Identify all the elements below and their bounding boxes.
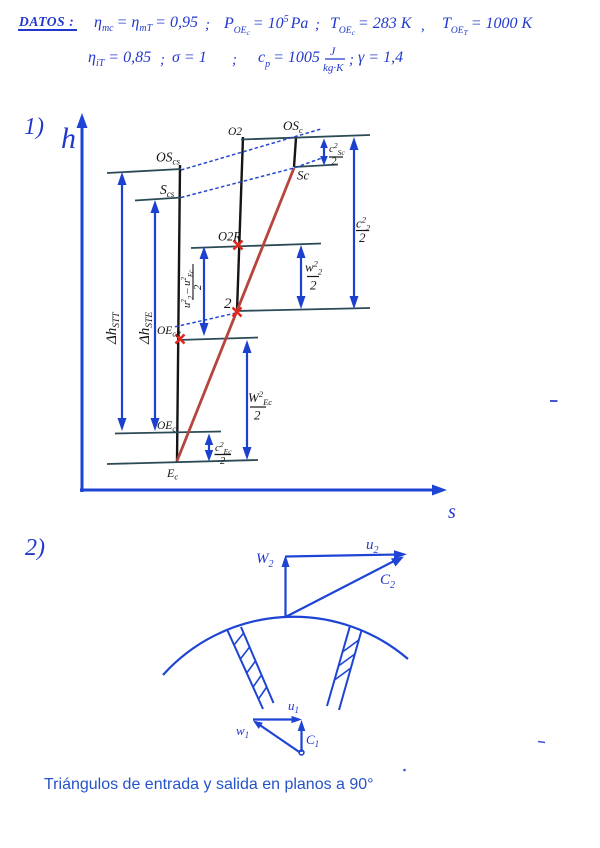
svg-text:2: 2 xyxy=(220,456,226,467)
level line Ec (bottom) xyxy=(107,460,258,464)
datos line 1: eta_mc = eta_mT = 0,95 xyxy=(94,14,210,34)
svg-text:;: ; xyxy=(315,17,320,33)
label c_Ec^2/2 fraction xyxy=(215,440,233,467)
svg-text:OEc: OEc xyxy=(157,420,176,434)
svg-text:ΔhSTT: ΔhSTT xyxy=(104,312,122,345)
svg-text:C1: C1 xyxy=(306,732,319,749)
svg-text:γ = 1,4: γ = 1,4 xyxy=(358,49,403,66)
svg-text:POEc= 105Pa: POEc= 105Pa xyxy=(223,14,308,37)
svg-text:kg·K: kg·K xyxy=(323,62,344,74)
svg-text:OSc: OSc xyxy=(283,118,303,135)
svg-text:w22: w22 xyxy=(305,259,323,277)
right blade edge 2 xyxy=(339,631,362,711)
svg-text:2: 2 xyxy=(310,278,317,293)
svg-text:h: h xyxy=(61,122,76,155)
svg-text:,: , xyxy=(421,18,425,34)
label W_Ec^2/2 fraction xyxy=(248,389,272,423)
svg-text:DATOS :: DATOS : xyxy=(18,14,74,29)
stray dash right of hs diagram xyxy=(550,400,558,402)
datos line 2: c_p = 1005 J/kgK xyxy=(258,44,403,74)
label c_Sc^2/2 fraction xyxy=(329,141,345,168)
red real-process line Ec-Sc xyxy=(177,168,294,461)
left blade hatching xyxy=(234,633,267,699)
svg-text:OScs: OScs xyxy=(156,150,180,167)
svg-text:O2R: O2R xyxy=(218,230,241,244)
stray dash far right xyxy=(538,742,545,743)
svg-text:W2: W2 xyxy=(256,551,274,570)
arrow (u2^2-uEc^2)/2 xyxy=(200,247,209,337)
datos line 1: T_OEr = 1000 K xyxy=(442,15,534,37)
arrow dh_sTE xyxy=(151,200,160,431)
svg-text:TOET= 1000 K: TOET= 1000 K xyxy=(442,15,534,37)
svg-text:O2: O2 xyxy=(228,126,242,138)
inlet triangle: w1 arrow xyxy=(259,725,300,753)
level line OEc xyxy=(115,432,221,434)
svg-text:2): 2) xyxy=(25,535,45,561)
svg-text:1): 1) xyxy=(24,114,44,140)
level line O2/OSc (top) xyxy=(241,135,370,140)
datos line 2: eta_iT = 0,85 ; sigma = 1 xyxy=(88,49,237,69)
level line OScs xyxy=(107,169,181,173)
svg-text:2: 2 xyxy=(193,284,204,290)
rotor rim arc xyxy=(163,617,408,675)
svg-text:Sc: Sc xyxy=(297,168,310,183)
inlet triangle: u1 arrow xyxy=(253,718,294,720)
svg-text:2: 2 xyxy=(332,157,337,168)
compressor process line Ec-OScs (black) xyxy=(177,165,180,462)
svg-text:W2Ec: W2Ec xyxy=(248,389,272,407)
svg-text:2: 2 xyxy=(224,296,232,312)
rotated label (u2^2-uEc^2)/2 xyxy=(180,264,204,308)
svg-text:;: ; xyxy=(205,17,210,33)
arrow c_Sc^2/2 xyxy=(320,139,328,166)
svg-text:ηiT= 0,85: ηiT= 0,85 xyxy=(88,49,151,69)
svg-text:Scs: Scs xyxy=(160,182,175,199)
inlet triangle: C1 arrow up xyxy=(300,727,302,752)
right blade edge 1 xyxy=(327,626,350,706)
arrow dh_sTT xyxy=(118,172,127,431)
exit triangle: C2 hypotenuse arrow xyxy=(286,560,397,617)
svg-text:;: ; xyxy=(160,52,165,68)
exit triangle: u2 horizontal arrow xyxy=(286,555,399,557)
h axis (vertical) xyxy=(81,122,84,492)
dashed line Scs to Sc xyxy=(181,158,322,198)
svg-text:ΔhSTE: ΔhSTE xyxy=(137,312,155,345)
level line Sc xyxy=(294,165,338,168)
datos line 1: T_OEc = 283 K xyxy=(330,15,425,37)
svg-text:J: J xyxy=(330,44,336,58)
left blade edge 2 xyxy=(241,627,274,703)
arrow W_Ec^2/2 xyxy=(243,340,252,460)
label DATOS heading xyxy=(18,14,77,30)
level line Scs xyxy=(135,198,181,201)
dashed line OScs to top-right xyxy=(181,129,321,170)
line OSc-Sc (black) xyxy=(294,138,296,167)
svg-text:2: 2 xyxy=(254,408,261,423)
red X at 2 xyxy=(233,308,242,317)
W2 arrowhead up xyxy=(282,555,290,567)
red X at O2R xyxy=(234,241,243,250)
svg-text:σ = 1: σ = 1 xyxy=(172,49,207,66)
turbine process line O2-2 (black) xyxy=(237,137,243,311)
svg-text:u1: u1 xyxy=(288,698,299,715)
label c_2^2/2 fraction xyxy=(356,215,371,246)
stray dot right of triangle xyxy=(403,769,406,772)
svg-text:2: 2 xyxy=(359,230,366,245)
arrow c_Ec^2/2 xyxy=(205,434,213,462)
svg-text:ηmc= ηmT= 0,95: ηmc= ηmT= 0,95 xyxy=(94,14,198,34)
svg-text:Ec: Ec xyxy=(166,466,178,482)
level line O2R xyxy=(191,244,321,249)
svg-text:;: ; xyxy=(349,52,354,68)
svg-text:TOEc= 283 K: TOEc= 283 K xyxy=(330,15,413,37)
svg-text:cp= 1005: cp= 1005 xyxy=(258,49,320,70)
level line 2 xyxy=(236,308,370,311)
dashed line 2 to OEcR xyxy=(174,313,236,327)
left blade edge 1 xyxy=(228,631,264,710)
arrow w_2^2/2 xyxy=(297,245,306,309)
svg-text:;: ; xyxy=(232,52,237,68)
right blade hatching xyxy=(335,640,359,680)
datos line 1: P_OEc = 10^5 Pa xyxy=(223,14,320,37)
arrow c_2^2/2 xyxy=(350,137,359,309)
s axis (horizontal) xyxy=(80,489,438,492)
svg-text:c2Ec: c2Ec xyxy=(215,440,232,456)
svg-text:u2: u2 xyxy=(366,537,379,556)
svg-text:w1: w1 xyxy=(236,723,249,740)
red X at OEcR xyxy=(176,335,185,344)
exit triangle: W2 vertical line xyxy=(284,562,286,617)
svg-text:Triángulos de entrada y salida: Triángulos de entrada y salida en planos… xyxy=(44,776,374,793)
svg-text:C2: C2 xyxy=(380,572,395,591)
svg-text:c2Sc: c2Sc xyxy=(329,141,345,157)
svg-text:s: s xyxy=(448,501,456,523)
level line OEcR xyxy=(178,338,258,341)
label w_2^2/2 fraction xyxy=(305,259,323,293)
small circle at inlet triangle vertex xyxy=(299,750,304,755)
